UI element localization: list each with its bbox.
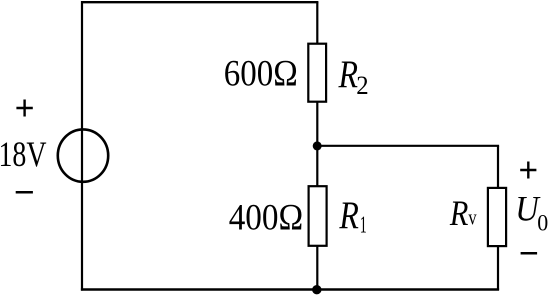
wire: bottom horizontal	[81, 288, 499, 290]
node A junction dot	[313, 141, 322, 150]
label: + polarity of source	[16, 100, 32, 117]
wire: left vertical through source	[81, 1, 83, 291]
svg-text:0: 0	[537, 211, 548, 237]
wire: R2 branch top segment	[316, 2, 318, 44]
wire: R2 bottom to node A	[316, 102, 318, 147]
svg-text:R: R	[449, 193, 468, 233]
resistor R1 body	[309, 186, 327, 246]
voltage source V1 circle	[58, 129, 108, 181]
svg-text:v: v	[468, 205, 476, 230]
svg-text:400Ω: 400Ω	[229, 197, 304, 238]
wire: top horizontal from left branch to R2 branch	[81, 1, 318, 3]
svg-text:R: R	[339, 194, 359, 237]
label: - polarity of source	[16, 191, 33, 194]
svg-text:2: 2	[356, 70, 368, 100]
node B junction dot	[312, 285, 321, 294]
label: U0 output voltage	[515, 188, 548, 236]
svg-text:1: 1	[360, 211, 367, 238]
wire: Rv bottom to bottom wire	[497, 246, 499, 290]
label: - polarity of U0	[521, 252, 538, 255]
wire: right vertical from mid wire down to Rv	[497, 146, 499, 188]
wire: node A down to R1	[316, 146, 318, 187]
svg-text:600Ω: 600Ω	[224, 54, 298, 95]
label: Rv designator	[449, 193, 477, 233]
label: R1 designator	[339, 194, 367, 239]
svg-text:R: R	[338, 53, 358, 96]
label: + polarity of U0	[520, 162, 536, 179]
resistor R2 body	[308, 44, 326, 102]
label: R2 designator	[338, 53, 369, 100]
resistor Rv body	[488, 188, 506, 246]
wire: R1 bottom to node B	[316, 246, 318, 290]
wire: middle horizontal from node A to Rv branch	[317, 145, 499, 147]
svg-text:18V: 18V	[0, 134, 47, 174]
